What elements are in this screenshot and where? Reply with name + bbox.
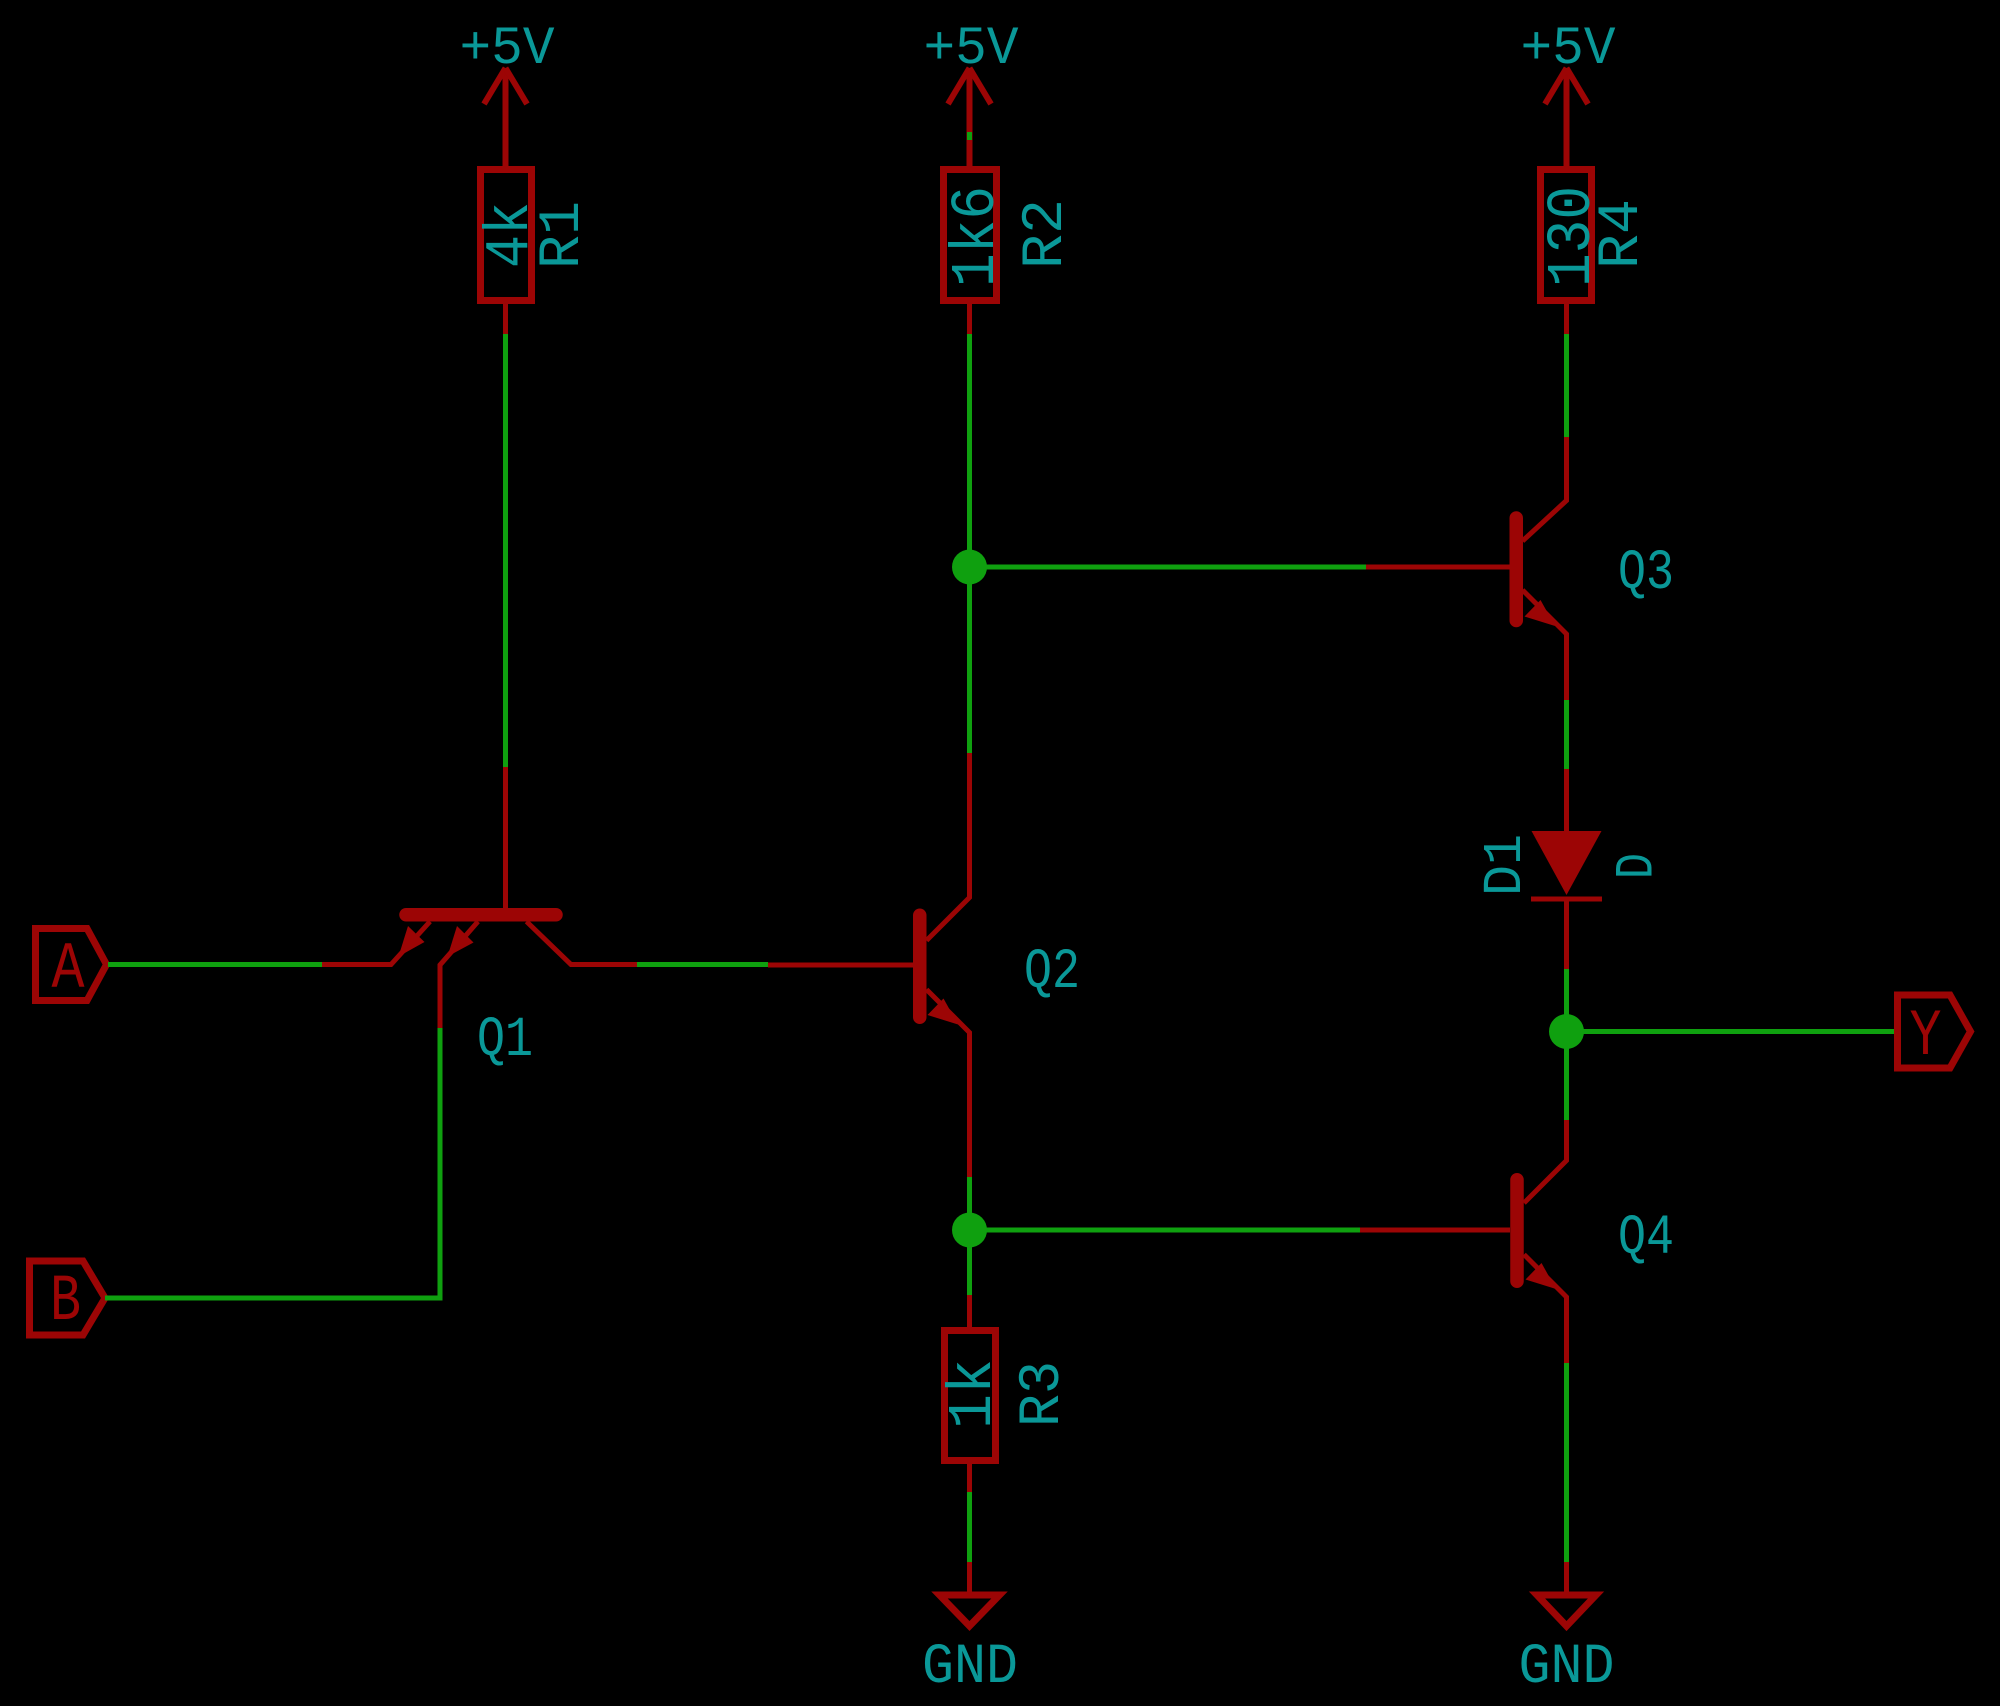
wire D1 to junction 3 <box>1564 969 1569 1120</box>
svg-text:1k6: 1k6 <box>941 186 1012 287</box>
junction node 2 (Q2 emitter / R3 / Q4 base) <box>952 1213 987 1248</box>
svg-text:1k: 1k <box>938 1359 1009 1429</box>
svg-text:A: A <box>52 932 85 1007</box>
svg-text:+5V: +5V <box>1521 19 1617 80</box>
svg-text:Q4: Q4 <box>1618 1207 1674 1271</box>
wire junction 2 to Q4 base <box>970 1228 1361 1233</box>
svg-text:R2: R2 <box>1014 199 1079 269</box>
wire Q3 emitter to D1 <box>1564 700 1569 769</box>
junction node (R2 / Q2 collector / Q3 base) <box>952 550 987 585</box>
svg-text:Q3: Q3 <box>1618 542 1674 606</box>
svg-text:D: D <box>1608 853 1669 879</box>
port Y <box>1898 995 1971 1074</box>
wire Q4 emitter to GND <box>1564 1363 1569 1562</box>
wire Q1 collector to Q2 base <box>637 962 768 967</box>
svg-text:D1: D1 <box>1474 834 1537 896</box>
power symbol +5V (column 3) <box>1545 68 1588 166</box>
transistor Q4 <box>1360 1120 1674 1363</box>
power symbol +5V (column 2) <box>948 68 991 166</box>
transistor Q2 <box>768 753 1080 1177</box>
resistor R4 <box>1537 170 1655 335</box>
wire B to Q1 emitter 2 <box>105 1028 440 1298</box>
wire A to Q1 emitter <box>108 962 322 967</box>
wire junction to Q3 base <box>970 565 1367 570</box>
diode D1 <box>1474 769 1669 969</box>
ground GND (column 2) <box>922 1562 1018 1700</box>
svg-text:+5V: +5V <box>924 19 1020 80</box>
wire R2 to junction to Q2 collector <box>967 334 972 753</box>
port A <box>36 929 107 1008</box>
wire stub at power pin (column 2) <box>967 132 972 140</box>
svg-text:GND: GND <box>922 1636 1018 1700</box>
svg-text:Q1: Q1 <box>477 1009 533 1073</box>
svg-text:Q2: Q2 <box>1024 941 1080 1005</box>
port B <box>30 1261 106 1339</box>
transistor Q3 <box>1366 437 1674 700</box>
svg-text:R1: R1 <box>531 201 596 269</box>
resistor R2 <box>941 170 1079 335</box>
wire Q2 emitter to junction 2 <box>967 1177 972 1295</box>
wire R4 to Q3 collector <box>1564 334 1569 437</box>
wire junction 3 to port Y <box>1567 1029 1897 1034</box>
resistor R3 <box>938 1295 1076 1492</box>
svg-text:R3: R3 <box>1011 1361 1076 1427</box>
junction node 3 (D1 / Y / Q4 collector) <box>1549 1014 1584 1049</box>
wire R1 to Q1 base <box>503 334 508 767</box>
svg-text:Y: Y <box>1910 999 1942 1074</box>
resistor R1 <box>475 170 596 335</box>
svg-text:R4: R4 <box>1590 199 1655 269</box>
svg-text:+5V: +5V <box>460 19 556 80</box>
svg-text:GND: GND <box>1519 1636 1615 1700</box>
ground GND (column 3) <box>1519 1562 1615 1700</box>
wire R3 to GND <box>967 1492 972 1562</box>
transistor Q1 (multi-emitter) <box>322 767 637 1073</box>
power symbol +5V (column 1) <box>484 68 527 166</box>
svg-text:B: B <box>50 1264 81 1339</box>
